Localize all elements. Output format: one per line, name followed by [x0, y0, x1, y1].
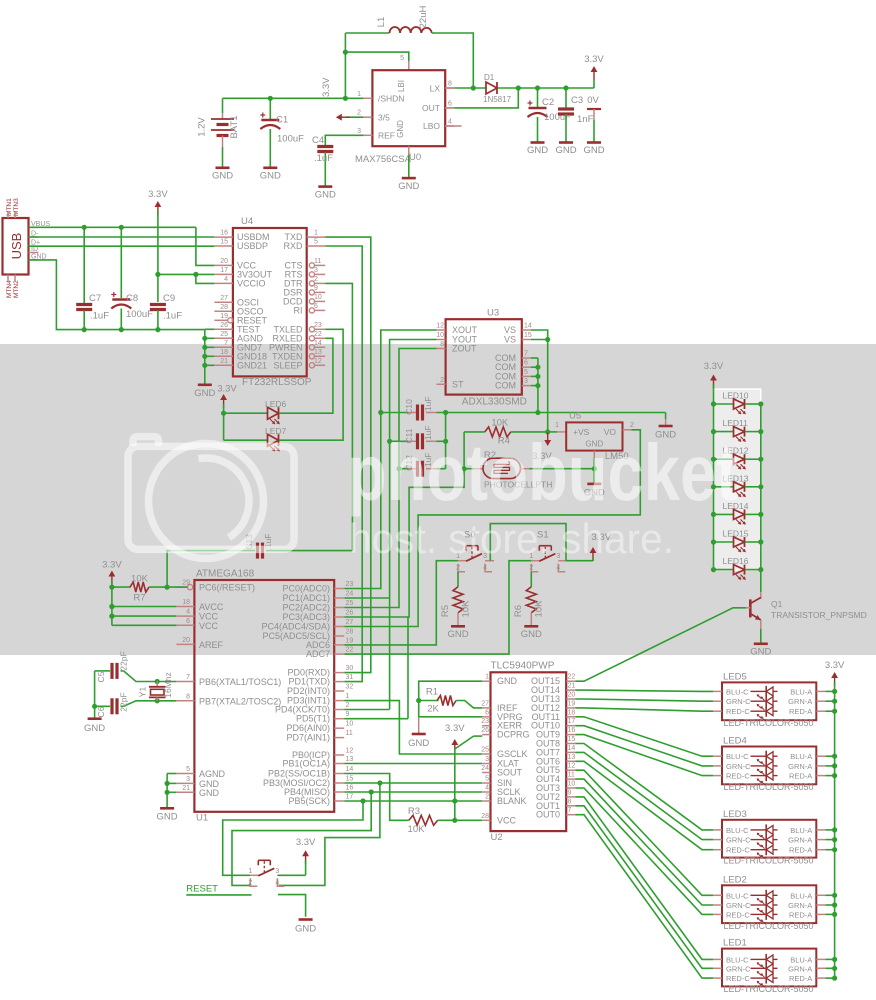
svg-text:25: 25: [346, 600, 354, 607]
svg-text:20: 20: [220, 258, 228, 265]
svg-text:10K: 10K: [491, 418, 509, 429]
svg-text:BLU-A: BLU-A: [790, 752, 812, 761]
svg-text:Q1: Q1: [771, 599, 783, 609]
svg-text:RI: RI: [294, 305, 303, 315]
svg-text:USBDP: USBDP: [237, 241, 268, 251]
svg-text:BLU-C: BLU-C: [726, 752, 749, 761]
svg-text:2: 2: [529, 565, 533, 572]
svg-text:14: 14: [346, 766, 354, 773]
svg-text:R6: R6: [513, 605, 524, 617]
svg-text:24: 24: [481, 765, 489, 772]
svg-text:RED-C: RED-C: [726, 707, 750, 716]
svg-text:3.3V: 3.3V: [445, 723, 465, 734]
svg-text:GND: GND: [157, 812, 178, 823]
svg-text:.1uF: .1uF: [163, 311, 182, 322]
svg-text:PB2(SS/OC1B): PB2(SS/OC1B): [268, 769, 330, 779]
svg-text:BLU-A: BLU-A: [790, 826, 812, 835]
svg-text:GRN-C: GRN-C: [726, 762, 751, 771]
svg-text:C2: C2: [542, 97, 554, 108]
svg-text:RED-C: RED-C: [726, 772, 750, 781]
svg-text:1: 1: [485, 674, 489, 681]
svg-text:TLC5940PWP: TLC5940PWP: [491, 661, 555, 672]
svg-text:8: 8: [186, 693, 190, 700]
svg-text:8: 8: [568, 798, 572, 805]
svg-text:16: 16: [346, 785, 354, 792]
svg-text:C1: C1: [276, 115, 288, 126]
svg-text:21: 21: [220, 358, 228, 365]
svg-text:10: 10: [436, 332, 444, 339]
svg-text:GND: GND: [583, 145, 604, 156]
svg-text:PD2(INT0): PD2(INT0): [287, 686, 330, 696]
svg-text:VS: VS: [504, 325, 516, 335]
svg-text:26: 26: [220, 322, 228, 329]
svg-text:11: 11: [346, 730, 353, 737]
svg-text:16: 16: [568, 727, 576, 734]
svg-text:MTN4: MTN4: [6, 280, 13, 298]
svg-text:PB6(XTAL1/TOSC1): PB6(XTAL1/TOSC1): [199, 677, 281, 687]
svg-text:GND: GND: [527, 145, 548, 156]
svg-text:GND: GND: [555, 145, 576, 156]
svg-text:11: 11: [314, 258, 321, 265]
svg-text:19: 19: [568, 700, 576, 707]
svg-text:22: 22: [346, 647, 354, 654]
svg-text:C10: C10: [404, 399, 414, 415]
svg-text:ST: ST: [452, 379, 464, 389]
svg-text:18: 18: [182, 599, 190, 606]
svg-text:18: 18: [568, 709, 576, 716]
svg-text:R3: R3: [408, 806, 420, 817]
svg-text:RED-C: RED-C: [726, 846, 750, 855]
svg-text:100uF: 100uF: [126, 309, 153, 320]
svg-text:GRN-A: GRN-A: [788, 901, 812, 910]
svg-text:1N5817: 1N5817: [483, 95, 512, 104]
svg-text:LED-TRICOLOR-5050: LED-TRICOLOR-5050: [724, 782, 814, 792]
svg-text:24: 24: [346, 591, 354, 598]
svg-text:7: 7: [224, 340, 228, 347]
svg-text:22pF: 22pF: [119, 651, 129, 670]
svg-text:OUT0: OUT0: [536, 810, 560, 820]
svg-text:ADXL330SMD: ADXL330SMD: [462, 397, 527, 408]
svg-text:BLU-C: BLU-C: [726, 687, 749, 696]
svg-text:PB7(XTAL2/TOSC2): PB7(XTAL2/TOSC2): [199, 696, 281, 706]
svg-text:PD7(AIN1): PD7(AIN1): [286, 733, 330, 743]
svg-text:LED7: LED7: [265, 426, 287, 436]
svg-text:BLANK: BLANK: [497, 796, 527, 806]
svg-text:16Mhz: 16Mhz: [163, 672, 173, 698]
svg-text:10: 10: [314, 294, 322, 301]
svg-text:9: 9: [314, 285, 318, 292]
svg-text:26: 26: [346, 610, 354, 617]
svg-text:100uF: 100uF: [277, 134, 304, 145]
svg-text:LED3: LED3: [723, 809, 747, 820]
svg-text:BAT1: BAT1: [229, 115, 240, 138]
svg-text:U5: U5: [569, 411, 581, 422]
svg-text:20: 20: [182, 637, 190, 644]
svg-text:C9: C9: [163, 293, 175, 304]
svg-text:13: 13: [314, 349, 322, 356]
svg-text:6: 6: [186, 618, 190, 625]
svg-text:3.3V: 3.3V: [102, 560, 122, 571]
svg-text:27: 27: [220, 295, 228, 302]
svg-text:GRN-A: GRN-A: [788, 836, 812, 845]
svg-text:4: 4: [485, 785, 489, 792]
svg-text:R5: R5: [440, 605, 451, 617]
svg-text:PC1(ADC1): PC1(ADC1): [282, 593, 330, 603]
svg-text:PC2(ADC2): PC2(ADC2): [282, 603, 330, 613]
svg-text:14: 14: [568, 745, 576, 752]
svg-text:L1: L1: [376, 17, 387, 28]
svg-text:VCCIO: VCCIO: [237, 278, 266, 288]
svg-text:14: 14: [314, 340, 322, 347]
svg-text:8: 8: [440, 341, 444, 348]
svg-text:LX: LX: [430, 84, 441, 94]
svg-text:23: 23: [314, 322, 322, 329]
svg-text:ID: ID: [31, 246, 38, 253]
svg-text:RED-A: RED-A: [789, 772, 812, 781]
svg-text:30: 30: [346, 665, 354, 672]
svg-text:R1: R1: [426, 687, 438, 698]
svg-text:17: 17: [568, 718, 576, 725]
svg-text:U2: U2: [491, 832, 503, 843]
svg-text:RESET: RESET: [186, 884, 218, 895]
svg-text:RED-C: RED-C: [726, 910, 750, 919]
svg-text:GND21: GND21: [237, 360, 267, 370]
svg-text:1: 1: [357, 91, 361, 98]
svg-text:8: 8: [448, 81, 452, 88]
svg-text:GND: GND: [497, 676, 518, 686]
svg-text:10K: 10K: [408, 824, 426, 835]
svg-text:BLU-C: BLU-C: [726, 955, 749, 964]
svg-text:5: 5: [186, 766, 190, 773]
svg-text:C7: C7: [89, 293, 101, 304]
svg-text:GRN-C: GRN-C: [726, 836, 751, 845]
svg-text:13: 13: [346, 756, 354, 763]
svg-text:VCC: VCC: [199, 621, 219, 631]
svg-text:BLU-C: BLU-C: [726, 826, 749, 835]
svg-text:3: 3: [357, 128, 361, 135]
svg-text:PC0(ADC0): PC0(ADC0): [282, 584, 330, 594]
svg-text:3: 3: [485, 756, 489, 763]
svg-text:3.3V: 3.3V: [217, 384, 237, 395]
svg-text:5: 5: [400, 55, 404, 62]
svg-text:1: 1: [314, 230, 318, 237]
svg-text:BLU-A: BLU-A: [790, 687, 812, 696]
svg-text:3: 3: [275, 868, 279, 875]
svg-text:6: 6: [314, 303, 318, 310]
svg-text:LED-TRICOLOR-5050: LED-TRICOLOR-5050: [724, 921, 814, 931]
svg-text:U1: U1: [196, 813, 208, 824]
svg-text:ZOUT: ZOUT: [452, 344, 477, 354]
svg-text:15: 15: [524, 332, 532, 339]
svg-text:12: 12: [568, 763, 576, 770]
svg-text:DCPRG: DCPRG: [497, 730, 530, 740]
svg-text:C3: C3: [571, 95, 583, 106]
svg-text:MTN3: MTN3: [13, 198, 20, 216]
svg-text:4: 4: [275, 879, 279, 886]
svg-text:RED-A: RED-A: [789, 910, 812, 919]
svg-text:GND: GND: [396, 120, 405, 138]
svg-text:LED-TRICOLOR-5050: LED-TRICOLOR-5050: [724, 855, 814, 865]
svg-text:28: 28: [481, 813, 489, 820]
svg-text:.1uF: .1uF: [90, 311, 109, 322]
svg-text:GRN-A: GRN-A: [788, 964, 812, 973]
svg-text:FT232RLSSOP: FT232RLSSOP: [242, 377, 312, 388]
svg-text:SOUT: SOUT: [497, 768, 523, 778]
svg-text:21: 21: [182, 785, 190, 792]
svg-text:XOUT: XOUT: [452, 325, 478, 335]
svg-text:23: 23: [481, 718, 489, 725]
svg-text:GND: GND: [315, 190, 336, 201]
svg-text:RXD: RXD: [283, 241, 303, 251]
svg-text:GND: GND: [260, 171, 281, 182]
svg-text:RED-A: RED-A: [789, 974, 812, 983]
svg-text:17: 17: [346, 794, 354, 801]
svg-text:LED6: LED6: [265, 399, 287, 409]
svg-text:1: 1: [248, 868, 252, 875]
svg-text:LBI: LBI: [397, 80, 406, 92]
svg-text:2: 2: [357, 110, 361, 117]
svg-text:5: 5: [314, 239, 318, 246]
svg-text:C6: C6: [96, 706, 106, 717]
svg-text:2: 2: [248, 879, 252, 886]
svg-text:PB5(SCK): PB5(SCK): [288, 796, 330, 806]
svg-text:6: 6: [524, 360, 528, 367]
svg-text:GRN-C: GRN-C: [726, 697, 751, 706]
svg-text:LED5: LED5: [723, 671, 747, 682]
svg-text:19: 19: [220, 313, 228, 320]
svg-text:6: 6: [485, 709, 489, 716]
svg-text:VCC: VCC: [497, 815, 517, 825]
svg-text:LED4: LED4: [723, 736, 747, 747]
svg-text:BLU-A: BLU-A: [790, 891, 812, 900]
svg-text:LED-TRICOLOR-5050: LED-TRICOLOR-5050: [724, 718, 814, 728]
svg-text:2: 2: [346, 702, 350, 709]
svg-text:0V: 0V: [587, 95, 599, 106]
svg-text:RED-A: RED-A: [789, 846, 812, 855]
svg-text:GRN-A: GRN-A: [788, 762, 812, 771]
svg-text:27: 27: [346, 619, 354, 626]
svg-text:3.3V: 3.3V: [584, 54, 604, 65]
svg-text:3.3V: 3.3V: [148, 189, 168, 200]
svg-text:5: 5: [524, 369, 528, 376]
svg-text:16: 16: [220, 230, 228, 237]
svg-text:ATMEGA168: ATMEGA168: [196, 569, 255, 580]
svg-text:LED-TRICOLOR-5050: LED-TRICOLOR-5050: [724, 984, 814, 994]
svg-text:32: 32: [346, 684, 354, 691]
svg-text:TRANSISTOR_PNPSMD: TRANSISTOR_PNPSMD: [771, 610, 867, 620]
svg-text:REF: REF: [378, 131, 395, 141]
svg-text:U4: U4: [241, 216, 253, 227]
svg-text:PC3(ADC3): PC3(ADC3): [282, 612, 330, 622]
svg-text:14: 14: [524, 323, 532, 330]
svg-text:GND: GND: [750, 647, 771, 658]
svg-text:GND: GND: [521, 629, 542, 640]
svg-text:10: 10: [346, 721, 354, 728]
svg-text:29: 29: [182, 580, 190, 587]
svg-text:12: 12: [314, 358, 322, 365]
svg-text:2: 2: [485, 794, 489, 801]
svg-text:31: 31: [346, 674, 354, 681]
svg-text:22pF: 22pF: [119, 692, 129, 711]
svg-text:C5: C5: [96, 671, 106, 682]
svg-text:5: 5: [485, 776, 489, 783]
svg-text:3: 3: [314, 267, 318, 274]
svg-text:1nF: 1nF: [577, 114, 594, 125]
svg-text:GND: GND: [199, 788, 220, 798]
svg-text:3.3V: 3.3V: [321, 77, 332, 97]
svg-text:3.3V: 3.3V: [825, 660, 845, 671]
svg-text:25: 25: [220, 331, 228, 338]
svg-text:22: 22: [314, 331, 322, 338]
svg-text:15: 15: [346, 776, 354, 783]
svg-text:10K: 10K: [534, 600, 545, 618]
svg-text:AREF: AREF: [199, 640, 224, 650]
svg-text:GND: GND: [408, 738, 429, 749]
svg-text:3: 3: [186, 776, 190, 783]
svg-text:22: 22: [568, 674, 576, 681]
svg-text:LBO: LBO: [423, 121, 440, 131]
svg-text:GSCLK: GSCLK: [497, 749, 528, 759]
svg-text:GND: GND: [398, 181, 419, 192]
svg-text:9: 9: [568, 789, 572, 796]
svg-text:U0: U0: [409, 152, 421, 163]
svg-text:4: 4: [556, 565, 560, 572]
svg-text:C8: C8: [126, 293, 138, 304]
svg-text:1: 1: [346, 693, 350, 700]
svg-text:2: 2: [440, 377, 444, 384]
svg-text:OUT: OUT: [422, 103, 440, 113]
svg-text:RED-A: RED-A: [789, 707, 812, 716]
svg-text:BLU-A: BLU-A: [790, 955, 812, 964]
svg-text:MTN1: MTN1: [6, 198, 13, 216]
svg-text:3/5: 3/5: [378, 113, 390, 123]
svg-text:MAX756CSA: MAX756CSA: [355, 154, 412, 165]
svg-text:3: 3: [524, 378, 528, 385]
svg-text:U3: U3: [487, 308, 499, 319]
svg-text:GND: GND: [295, 924, 316, 935]
svg-text:LED1: LED1: [723, 938, 747, 949]
svg-text:12: 12: [346, 748, 354, 755]
svg-text:D1: D1: [484, 73, 495, 82]
svg-text:15: 15: [220, 239, 228, 246]
svg-text:22uH: 22uH: [418, 6, 429, 29]
svg-text:PB1(OC1A): PB1(OC1A): [282, 759, 330, 769]
svg-text:photobucket: photobucket: [347, 428, 738, 517]
svg-text:4: 4: [186, 609, 190, 616]
svg-text:GND: GND: [84, 723, 105, 734]
svg-text:11: 11: [568, 772, 575, 779]
svg-text:PC6(/RESET): PC6(/RESET): [199, 583, 255, 593]
svg-text:RED-C: RED-C: [726, 974, 750, 983]
svg-text:20: 20: [568, 692, 576, 699]
svg-text:26: 26: [481, 727, 489, 734]
svg-text:10K: 10K: [461, 600, 472, 618]
svg-text:ADC7: ADC7: [306, 649, 330, 659]
svg-text:25: 25: [481, 747, 489, 754]
svg-text:AVCC: AVCC: [199, 602, 224, 612]
svg-text:VS: VS: [504, 335, 516, 345]
svg-text:GRN-A: GRN-A: [788, 697, 812, 706]
svg-text:27: 27: [481, 700, 489, 707]
svg-text:GRN-C: GRN-C: [726, 964, 751, 973]
svg-text:28: 28: [346, 629, 354, 636]
svg-text:28: 28: [220, 304, 228, 311]
svg-text:GND: GND: [194, 388, 215, 399]
svg-text:4: 4: [224, 276, 228, 283]
svg-text:BLU-C: BLU-C: [726, 891, 749, 900]
svg-text:PC4(ADC4/SDA): PC4(ADC4/SDA): [261, 622, 330, 632]
svg-text:USB: USB: [9, 233, 24, 260]
svg-text:GRN-C: GRN-C: [726, 901, 751, 910]
svg-text:6: 6: [448, 100, 452, 107]
svg-text:7: 7: [524, 351, 528, 358]
svg-text:1.2V: 1.2V: [197, 117, 208, 137]
svg-text:COM: COM: [495, 381, 516, 391]
svg-text:GND: GND: [447, 629, 468, 640]
svg-text:4: 4: [448, 119, 452, 126]
svg-text:10: 10: [568, 781, 576, 788]
svg-text:host. store. share.: host. store. share.: [349, 515, 674, 562]
svg-text:18: 18: [220, 349, 228, 356]
svg-text:12: 12: [436, 323, 444, 330]
svg-text:13: 13: [568, 754, 576, 761]
svg-text:15: 15: [568, 736, 576, 743]
svg-text:AGND: AGND: [199, 769, 226, 779]
svg-text:R7: R7: [133, 593, 145, 604]
svg-text:9: 9: [346, 711, 350, 718]
svg-text:SLEEP: SLEEP: [273, 360, 302, 370]
svg-text:7: 7: [568, 807, 572, 814]
svg-text:7: 7: [186, 674, 190, 681]
svg-text:2: 2: [456, 565, 460, 572]
svg-text:19: 19: [346, 637, 354, 644]
svg-text:Y1: Y1: [138, 687, 148, 698]
svg-text:2K: 2K: [427, 704, 439, 715]
svg-text:3.3V: 3.3V: [296, 837, 316, 848]
svg-text:PD5(T1): PD5(T1): [296, 714, 330, 724]
svg-text:10K: 10K: [131, 574, 149, 585]
svg-text:/SHDN: /SHDN: [378, 94, 404, 104]
svg-text:21: 21: [568, 683, 576, 690]
svg-text:2: 2: [314, 276, 318, 283]
svg-text:C4: C4: [312, 135, 324, 146]
svg-text:MTN2: MTN2: [13, 280, 20, 298]
svg-text:.1uF: .1uF: [423, 396, 433, 413]
svg-text:LED2: LED2: [723, 874, 747, 885]
svg-text:.1uF: .1uF: [314, 153, 333, 164]
svg-text:4: 4: [483, 565, 487, 572]
svg-text:GND: GND: [212, 171, 233, 182]
svg-text:23: 23: [346, 581, 354, 588]
svg-text:3.3V: 3.3V: [704, 361, 724, 372]
svg-text:17: 17: [220, 267, 228, 274]
